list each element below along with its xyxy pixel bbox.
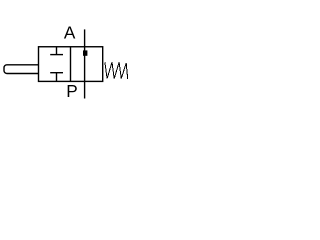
- svg-text:P: P: [66, 81, 77, 101]
- svg-text:A: A: [64, 23, 76, 43]
